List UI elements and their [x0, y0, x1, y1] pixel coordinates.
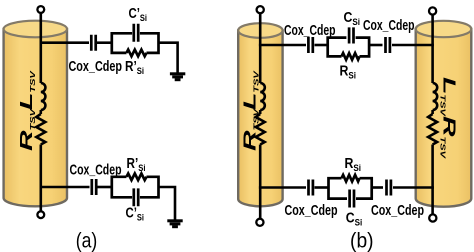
wire: inductor to resistor (b) right	[431, 110, 434, 114]
parallel RC box frame (b) bottom	[329, 178, 372, 198]
wire: resistor to bottom terminal (b) left	[259, 145, 262, 219]
parallel RC box frame (a) bottom	[112, 177, 159, 198]
svg-text:(a): (a)	[76, 230, 98, 252]
capacitor Cox_Cdep (b) top-right	[386, 37, 390, 53]
ground (a) top	[170, 74, 185, 80]
TSV cylinder body (a)	[4, 29, 67, 206]
capacitor C'_Si (a) top	[134, 24, 138, 42]
svg-text:Cox_Cdep: Cox_Cdep	[371, 203, 424, 219]
wire: top terminal to inductor (a)	[39, 13, 42, 83]
value label L_TSV R_TSV (b) right	[439, 77, 459, 159]
parallel RC box frame (a) top	[112, 33, 159, 53]
resistor R'_Si (a) top	[127, 50, 147, 57]
resistor R'_Si (a) bottom	[127, 174, 147, 181]
terminal node (b) left top	[257, 6, 264, 13]
capacitor Cox_Cdep (b) bottom-left	[309, 180, 313, 196]
TSV cylinder body (b) left	[238, 31, 282, 207]
wire: Cox cap to right via (b) top	[392, 44, 434, 47]
svg-text:Cox_Cdep: Cox_Cdep	[69, 59, 123, 75]
wire: top terminal to inductor (b) left	[259, 13, 262, 83]
wire: Cox cap to RC box (b) bottom	[315, 186, 329, 189]
wire: inductor to resistor (a)	[39, 110, 42, 114]
svg-text:Cox_Cdep: Cox_Cdep	[363, 18, 415, 34]
wire: (a) bottom branch from via to Cox cap	[40, 186, 90, 189]
inductor L_TSV (b) left	[260, 83, 265, 110]
capacitor C'_Si (a) bottom	[134, 188, 138, 206]
resistor R_Si (b) bottom	[342, 175, 360, 182]
resistor R_TSV (b) right	[428, 114, 437, 145]
parallel RC box frame (b) top	[328, 38, 369, 57]
wire: Cox cap to RC box (b) top	[315, 44, 328, 47]
terminal node (b) right top	[429, 7, 436, 14]
capacitor C_Si (b) bottom	[350, 190, 354, 208]
TSV cylinder top ellipse (b) right	[416, 21, 472, 37]
terminal node (b) right bottom	[429, 214, 436, 221]
capacitor Cox_Cdep (b) top-left	[308, 37, 312, 53]
TSV cylinder top ellipse (b) left	[238, 23, 282, 38]
wire: RC box to ground (a) top	[159, 43, 178, 73]
wire: Cox cap to RC box (a) top	[97, 41, 112, 44]
TSV cylinder top ellipse (a)	[4, 21, 67, 38]
svg-text:(b): (b)	[350, 230, 374, 252]
value label R_TSV L_TSV (b) left	[240, 70, 260, 151]
terminal node (a) bottom	[37, 211, 44, 218]
wire: (b) bottom branch left via to Cox cap	[259, 186, 306, 189]
wire: top terminal to inductor (b) right	[431, 15, 434, 83]
terminal node (b) left bottom	[256, 219, 263, 226]
wire: (b) top branch left via to Cox cap	[259, 44, 306, 47]
capacitor Cox_Cdep (a) bottom	[92, 179, 96, 195]
terminal node (a) top	[37, 6, 44, 13]
wire: RC box to Cox cap (b) top-right	[369, 44, 382, 47]
wire: RC box to Cox cap (b) bottom-right	[372, 186, 383, 189]
capacitor Cox_Cdep (a) top	[91, 35, 95, 51]
wire: (a) top branch from via to Cox cap	[40, 41, 90, 44]
TSV cylinder body (b) right	[416, 29, 472, 207]
inductor L_TSV (b) right	[433, 83, 438, 110]
ground (a) bottom	[167, 221, 182, 227]
wire: Cox cap to RC box (a) bottom	[98, 186, 112, 189]
resistor R_TSV (a)	[36, 114, 45, 145]
wire: resistor to bottom terminal (b) right	[431, 145, 434, 215]
capacitor Cox_Cdep (b) bottom-right	[387, 180, 391, 196]
inductor L_TSV (a)	[41, 83, 46, 110]
value label R_TSV L_TSV (a)	[16, 70, 36, 151]
resistor R_Si (b) top	[342, 53, 360, 60]
wire: inductor to resistor (b) left	[259, 110, 262, 114]
svg-text:Cox_Cdep: Cox_Cdep	[285, 203, 338, 219]
wire: RC box to ground (a) bottom	[159, 187, 176, 220]
resistor R_TSV (b) left	[256, 114, 265, 145]
wire: resistor to bottom terminal (a)	[39, 145, 42, 212]
capacitor C_Si (b) top	[349, 27, 353, 43]
wire: Cox cap to right via (b) bottom	[393, 186, 434, 189]
